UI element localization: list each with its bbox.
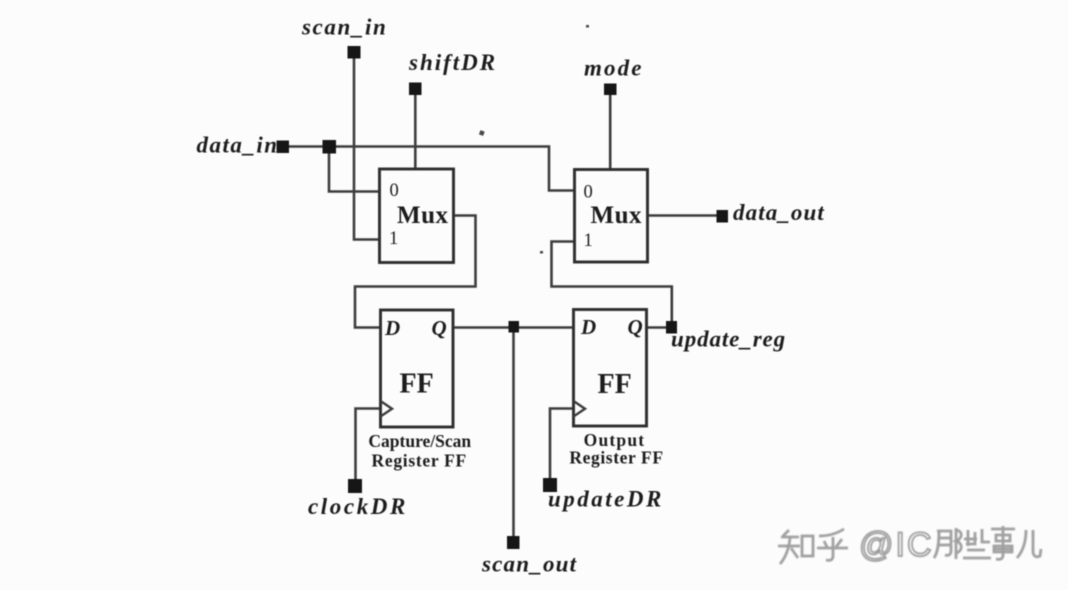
svg-text:D: D (580, 315, 596, 339)
svg-text:FF: FF (598, 369, 632, 400)
wire shiftDR drop to Mux1 select (414, 89, 417, 169)
wire node A drop to Mux1 pin 0 (329, 147, 380, 192)
flip-flop U3 box (381, 310, 454, 427)
watermark glyph hu (817, 529, 848, 560)
terminal scan_out (507, 536, 520, 549)
terminal data_out (717, 210, 729, 223)
wire Mux1 output to FF1 D input (355, 216, 476, 328)
svg-text:scan_out: scan_out (481, 552, 577, 577)
svg-text:updateDR: updateDR (548, 487, 664, 512)
watermark glyph shi (991, 526, 1015, 559)
svg-text:update_reg: update_reg (671, 327, 786, 352)
svg-text:Q: Q (628, 315, 643, 339)
speck 1 (479, 130, 485, 136)
svg-text:Q: Q (432, 316, 447, 340)
terminal shiftDR (409, 83, 422, 96)
wire mode drop to Mux2 select (609, 89, 612, 170)
svg-text:D: D (384, 316, 400, 340)
svg-text:0: 0 (584, 183, 593, 203)
wire FF2 Q to update_reg node (647, 326, 672, 329)
svg-text:clockDR: clockDR (308, 494, 408, 519)
svg-text:mode: mode (584, 56, 644, 81)
terminal clockDR (348, 479, 362, 493)
svg-text:Mux: Mux (397, 202, 449, 229)
clock chevron U4 (574, 401, 586, 417)
terminal scan_in (348, 46, 361, 59)
flip-flop U4 box (574, 310, 647, 427)
wire Mux2 output to data_out (648, 214, 723, 217)
clock chevron U3 (381, 401, 393, 417)
wire update_reg feedback to Mux2 pin 1 (552, 242, 672, 328)
wire updateDR to FF2 clock (550, 409, 574, 486)
junction node B (509, 321, 520, 333)
mux U1 box (380, 169, 454, 263)
wire scan_in to Mux1 pin 1 (354, 52, 380, 240)
speck 2 (540, 251, 543, 254)
watermark glyph xie (963, 529, 991, 558)
wire data_in main run to Mux2 pin 0 (283, 147, 575, 191)
wire node B drop to scan_out (512, 328, 515, 543)
junction node A (323, 140, 337, 154)
svg-text:Capture/Scan: Capture/Scan (368, 431, 471, 451)
terminal mode (604, 84, 617, 96)
terminal updateDR (543, 478, 557, 492)
svg-text:data_out: data_out (733, 200, 825, 225)
svg-text:Register FF: Register FF (569, 448, 663, 468)
speck 3 (586, 25, 589, 28)
watermark glyph er (1017, 530, 1041, 558)
watermark glyph zhi (778, 530, 813, 564)
watermark glyph na (934, 528, 961, 559)
wire clockDR to FF1 clock (356, 409, 381, 487)
svg-text:Register FF: Register FF (372, 451, 467, 471)
svg-text:FF: FF (400, 369, 434, 400)
svg-text:Mux: Mux (591, 202, 643, 229)
svg-text:1: 1 (389, 229, 398, 249)
svg-text:data_in: data_in (197, 133, 279, 158)
terminal data_in (277, 141, 290, 154)
svg-text:scan_in: scan_in (301, 15, 387, 40)
svg-text:@IC: @IC (859, 526, 934, 564)
svg-text:shiftDR: shiftDR (408, 50, 497, 75)
svg-text:0: 0 (390, 181, 399, 201)
svg-text:1: 1 (584, 231, 593, 251)
terminal update_reg (666, 321, 677, 334)
mux U2 box (575, 170, 648, 263)
wire FF1 Q to FF2 D (453, 326, 574, 329)
